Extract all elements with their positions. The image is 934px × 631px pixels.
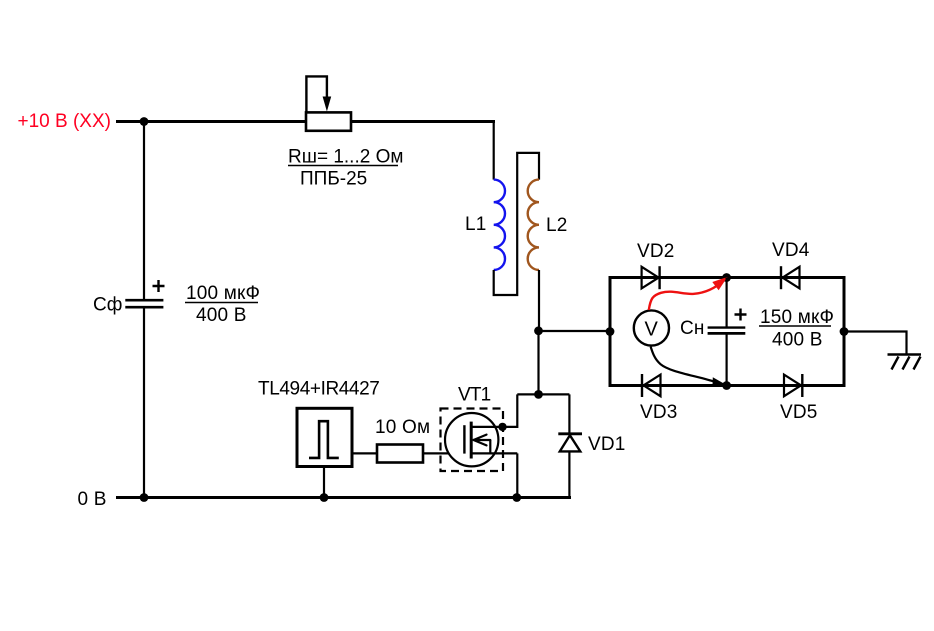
- wire cap Cf bottom lead: [143, 309, 145, 498]
- svg-text:VT1: VT1: [458, 385, 491, 406]
- svg-text:ППБ-25: ППБ-25: [300, 169, 367, 190]
- node junction rail-generator: [320, 493, 329, 502]
- svg-text:0 В: 0 В: [78, 489, 107, 510]
- svg-text:400 В: 400 В: [196, 305, 247, 326]
- rectifier bridge box: [610, 278, 844, 386]
- svg-text:150 мкФ: 150 мкФ: [760, 307, 834, 328]
- transistor VT1 source line: [471, 452, 517, 454]
- node junction drain net: [534, 390, 543, 399]
- wire L2 bottom lead: [538, 270, 540, 331]
- inductor L2: [528, 180, 539, 270]
- svg-text:VD3: VD3: [640, 402, 678, 423]
- node drain terminal dot: [498, 423, 506, 431]
- voltmeter V: [634, 310, 669, 345]
- transistor VT1 gate plate: [463, 425, 465, 453]
- wire node up to L2 junction: [537, 331, 539, 395]
- svg-text:V: V: [645, 319, 659, 341]
- inductor L1: [494, 180, 505, 270]
- svg-text:L1: L1: [465, 214, 487, 235]
- transistor VT1 body circle: [445, 413, 498, 466]
- capacitor Cn bottom lead: [725, 335, 727, 386]
- svg-text:VD2: VD2: [637, 241, 675, 262]
- black probe wire to bottom node: [651, 347, 724, 385]
- wire to rectifier: [539, 330, 611, 332]
- svg-text:L2: L2: [546, 215, 568, 236]
- transistor VT1 drain line: [471, 426, 502, 428]
- pulse waveform symbol: [309, 421, 339, 458]
- transistor VT1 dashed box: [441, 409, 504, 472]
- diode VD3: [644, 375, 661, 397]
- wire L1 bottom to L2 top: [494, 153, 539, 295]
- svg-text:400 В: 400 В: [772, 330, 823, 351]
- wire gate lead: [423, 452, 465, 454]
- capacitor Cf polarity +: [153, 280, 165, 292]
- resistor Rsh (rheostat body): [306, 112, 351, 130]
- wire drain node horizontal: [517, 393, 569, 395]
- diode VD4: [783, 267, 800, 289]
- node junction rail-Cf: [140, 493, 149, 502]
- node junction rect-left: [606, 327, 615, 336]
- node junction rect-top: [722, 273, 731, 282]
- resistor Rsh wiper tap: [306, 76, 327, 112]
- wire cap Cf top lead: [143, 122, 145, 300]
- diode VD2: [642, 267, 659, 289]
- transistor VT1 channel bar: [470, 422, 473, 459]
- capacitor Cn: [708, 326, 746, 328]
- node junction rect-right: [840, 327, 849, 336]
- transistor VT1 arrow: [474, 435, 491, 446]
- svg-text:Сф: Сф: [93, 295, 122, 316]
- svg-text:+10 В (XX): +10 В (XX): [18, 111, 111, 132]
- node junction top-left: [140, 117, 149, 126]
- wire top rail right: [351, 120, 495, 123]
- svg-text:Сн: Сн: [680, 318, 705, 339]
- wire top rail left: [116, 120, 306, 123]
- svg-text:VD1: VD1: [588, 434, 626, 455]
- ground: [888, 353, 922, 355]
- node junction rect-bottom: [722, 381, 731, 390]
- svg-text:100 мкФ: 100 мкФ: [186, 283, 260, 304]
- svg-text:VD5: VD5: [780, 402, 818, 423]
- diode VD5: [784, 375, 801, 397]
- svg-text:TL494+IR4427: TL494+IR4427: [258, 379, 379, 400]
- capacitor Cn top lead: [725, 278, 727, 328]
- wire generator output: [352, 452, 377, 454]
- wire generator to rail: [323, 467, 325, 498]
- capacitor Cn polarity +: [735, 309, 747, 321]
- red probe wire to top node: [649, 281, 724, 311]
- wire rectifier to ground: [844, 332, 907, 355]
- svg-text:Rш= 1...2 Ом: Rш= 1...2 Ом: [288, 147, 403, 168]
- capacitor Cf: [125, 299, 163, 302]
- node junction rail-source: [512, 493, 521, 502]
- node junction L2-rectifier: [534, 326, 543, 335]
- diode VD1: [568, 394, 570, 434]
- inductor L1 top lead: [493, 120, 495, 180]
- wire source to rail: [516, 453, 518, 497]
- svg-text:VD4: VD4: [772, 240, 810, 261]
- wire 0V rail: [116, 496, 571, 499]
- wire drain to node: [503, 394, 518, 427]
- svg-text:10 Ом: 10 Ом: [375, 417, 430, 438]
